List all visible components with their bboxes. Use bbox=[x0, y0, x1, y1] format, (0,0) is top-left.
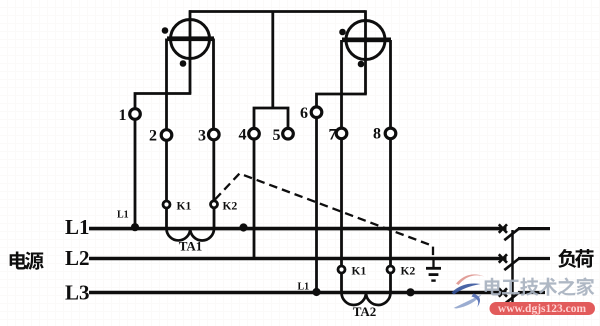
svg-text:L1: L1 bbox=[117, 210, 129, 221]
terminal K1 of TA1 bbox=[163, 201, 191, 213]
switch contact cross on phase 3 bbox=[499, 288, 507, 296]
terminal K1 of TA2 bbox=[338, 266, 366, 278]
wire U1 current-coil right lead to terminal 3 bbox=[212, 39, 215, 130]
wire U2 bottom lead to terminal 6 bbox=[317, 94, 367, 106]
svg-text:K2: K2 bbox=[223, 201, 238, 213]
wire load-side stub phase 1 bbox=[518, 227, 550, 230]
terminal 2 bbox=[149, 128, 172, 145]
svg-text:2: 2 bbox=[149, 128, 157, 145]
switch blade phase 1 bbox=[504, 229, 519, 241]
label dianyuan (power source) bbox=[10, 252, 44, 270]
wire U2 current-coil right lead to terminal 8 bbox=[389, 40, 392, 127]
wire top bus bbox=[189, 10, 366, 13]
switch contact cross on phase 1 bbox=[499, 224, 507, 232]
svg-text:L1: L1 bbox=[65, 215, 90, 239]
svg-text:5: 5 bbox=[273, 127, 281, 144]
wire terminal 3 to K2 of TA1 bbox=[212, 141, 215, 202]
wire load-side stub phase 2 bbox=[518, 257, 550, 260]
wire phase line L1 bbox=[89, 227, 507, 231]
svg-text:L1: L1 bbox=[298, 282, 310, 293]
node junction on L3 right of TA2 bbox=[406, 288, 414, 296]
terminal 8 bbox=[373, 126, 396, 143]
wire terminal 4 riser to L2 bbox=[253, 140, 256, 259]
node junction on L1 near voltage tap bbox=[239, 223, 247, 231]
terminal K2 of TA1 bbox=[211, 201, 238, 213]
wire dashed earth link from K2 of TA1 to ground bbox=[215, 174, 433, 259]
terminal 6 bbox=[300, 105, 322, 122]
terminal 4 bbox=[239, 127, 260, 144]
terminal 7 bbox=[329, 127, 347, 144]
terminal 3 bbox=[198, 128, 219, 145]
svg-text:L2: L2 bbox=[65, 246, 90, 270]
wire U2 current-coil left lead to terminal 7 bbox=[340, 40, 343, 127]
terminal 5 bbox=[273, 127, 294, 144]
node junction terminal1/L1 bbox=[131, 223, 139, 231]
wire K2 of TA2 to L3 bbox=[389, 273, 392, 293]
svg-text:L3: L3 bbox=[65, 281, 90, 305]
wire phase line L3 bbox=[89, 291, 507, 295]
switch blade phase 3 bbox=[504, 293, 519, 305]
op element U2: meter element 2 (circle with current coil bar) bbox=[339, 21, 391, 68]
wire terminal 1 riser to L1 bbox=[134, 120, 137, 229]
switch linkage rod bbox=[511, 230, 514, 304]
transformer TA1 current transformer primary humps bbox=[167, 229, 215, 241]
wire phase line L2 bbox=[89, 257, 507, 261]
wire U1 bottom lead to terminal 1 bbox=[135, 94, 191, 109]
wire terminal 2 to K1 of TA1 bbox=[165, 141, 168, 201]
svg-text:3: 3 bbox=[198, 128, 206, 145]
svg-text:TA1: TA1 bbox=[179, 239, 203, 254]
wire K1 of TA1 to L1 bbox=[165, 208, 168, 229]
switch contact cross on phase 2 bbox=[499, 254, 507, 262]
svg-text:4: 4 bbox=[239, 127, 247, 144]
terminal K2 of TA2 bbox=[387, 266, 415, 278]
watermark text dian gong ji shu zhi jia bbox=[485, 277, 595, 295]
transformer TA2 current transformer primary humps bbox=[342, 293, 391, 306]
svg-text:K1: K1 bbox=[352, 266, 367, 278]
wire voltage tap from top bus down to terminals 4 and 5 bbox=[254, 12, 288, 128]
svg-text:TA2: TA2 bbox=[353, 304, 377, 319]
svg-text:6: 6 bbox=[300, 105, 308, 122]
watermark logo swirl bbox=[452, 274, 485, 308]
switch blade phase 2 bbox=[504, 259, 519, 271]
wire element U2 voltage-coil vertical bbox=[364, 10, 367, 94]
label fuhe (load) bbox=[558, 249, 593, 268]
wire element U1 voltage-coil vertical bbox=[189, 10, 192, 93]
wire U1 current-coil left lead to terminal 2 bbox=[165, 39, 168, 130]
wire ground stub bbox=[432, 259, 434, 268]
svg-text:www.dgjs123.com: www.dgjs123.com bbox=[498, 303, 587, 315]
node junction terminal6/L3 bbox=[312, 288, 320, 296]
svg-text:7: 7 bbox=[329, 127, 337, 144]
wire K2 of TA1 to L1 bbox=[213, 208, 216, 229]
wire terminal 6 riser to L3 bbox=[315, 118, 318, 293]
svg-text:K2: K2 bbox=[401, 266, 416, 278]
wire K1 of TA2 to L3 bbox=[340, 273, 343, 293]
wire terminal 8 to K2 of TA2 bbox=[389, 139, 392, 266]
terminal 1 bbox=[119, 107, 141, 124]
watermark url pill bbox=[490, 302, 596, 315]
svg-text:K1: K1 bbox=[177, 201, 192, 213]
ground symbol bbox=[426, 268, 441, 280]
wire load-side stub phase 3 bbox=[518, 291, 545, 294]
svg-text:8: 8 bbox=[373, 126, 381, 143]
wire terminal 7 to K1 of TA2 bbox=[340, 139, 343, 266]
svg-text:1: 1 bbox=[119, 107, 127, 124]
op element U1: meter element 1 (circle with current coil bar) bbox=[162, 20, 214, 67]
